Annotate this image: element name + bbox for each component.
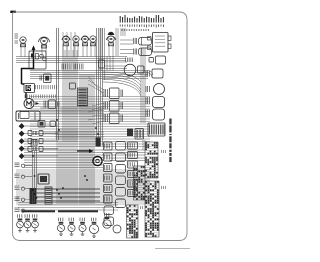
harness connector bar: [78, 88, 88, 106]
instrument lamp 3: [81, 36, 89, 46]
rear brake switch connector: [15, 208, 33, 212]
front left turn signal lamp: [20, 37, 26, 47]
wire colour code key column 1: [120, 15, 163, 23]
bullet connectors column: [19, 123, 25, 159]
alternator heavy leads: [36, 189, 100, 201]
tail harness bus: [18, 203, 118, 211]
main harness bundle C: [80, 74, 94, 204]
tachometer: [124, 58, 144, 76]
handlebar switch combs: [105, 144, 110, 202]
table row labels: [141, 150, 166, 209]
harness junction connector 1: [104, 88, 123, 99]
starter solenoid: [44, 100, 59, 109]
ignition coil 1: [134, 38, 152, 46]
switch housing stack: [116, 142, 126, 208]
wire colour code key abbreviations row: [122, 29, 150, 31]
small relay box b: [50, 121, 56, 127]
front right turn signal lamp: [107, 36, 116, 46]
switch table: handlebar right: [145, 181, 159, 237]
starter motor M: [24, 99, 39, 109]
console to coil wires: [104, 56, 127, 71]
battery: [16, 111, 40, 121]
inline connector pair 2: [28, 139, 58, 144]
headlamp: [39, 37, 50, 48]
turn signal relay: [146, 97, 165, 108]
tail stop lamp: [89, 218, 98, 238]
fuse box: [29, 51, 46, 69]
main positive lead: [22, 47, 34, 84]
CDI unit: [38, 174, 49, 184]
ignition switch block: [148, 33, 172, 53]
instrument lamp 4: [90, 36, 96, 46]
ignition feed arrow: [77, 149, 94, 153]
console bus wires: [30, 71, 148, 79]
battery leads: [40, 108, 104, 113]
main connector bar lower: [45, 187, 52, 204]
junction fan wires: [88, 76, 104, 124]
switch housing stack lower: [104, 206, 114, 226]
vertical caption: Wiring diagram - Honda CB650 US and UK models: [169, 119, 171, 163]
pulse generator connector: [15, 197, 33, 201]
right riser curve: [103, 72, 141, 96]
starter button connector: [146, 69, 163, 78]
rear left turn signal: [17, 214, 24, 232]
right riser bundle: [141, 48, 145, 150]
console bus bend: [148, 71, 153, 78]
regulator output comb: [36, 85, 57, 89]
side stand switch connector: [15, 174, 33, 178]
speedometer bulb 2: [68, 218, 75, 236]
inline connector pair 3: [28, 147, 58, 152]
rear bulb extra: [113, 225, 121, 233]
legend riser wires: [100, 28, 125, 80]
brake warning lamp: [24, 214, 31, 232]
page number 198: [10, 11, 16, 13]
small relay box c: [31, 140, 37, 147]
dimmer relay box: [99, 60, 105, 68]
instrument lamp 2: [73, 36, 79, 46]
inline connector pair 1: [28, 131, 58, 136]
switch table: bottom centre: [127, 205, 139, 238]
speedometer bulb 1: [57, 218, 64, 236]
main harness bundle E: [57, 128, 77, 204]
middle harness run 3: [24, 132, 150, 147]
rear right turn signal: [103, 213, 111, 228]
main harness bundle A: [57, 28, 59, 140]
starter relay: [146, 109, 165, 120]
horn: [146, 84, 165, 95]
indicator lamp cap: [108, 32, 114, 35]
middle harness run 1: [30, 97, 150, 115]
starter relay switch: [40, 74, 51, 83]
middle harness run 2: [30, 117, 150, 137]
rectifier block: [148, 123, 165, 136]
junction box left: [20, 112, 29, 119]
alternator junction blob: [30, 188, 37, 204]
connector block mid: [135, 129, 144, 140]
alternator lead bundle: [33, 150, 37, 204]
licence lamp: [32, 214, 39, 232]
tail bus dark segment: [22, 210, 98, 212]
fuse block mid: [127, 129, 133, 137]
harness junction connector 3: [104, 113, 123, 124]
oil pressure switch connector: [15, 163, 33, 167]
ignition switch block rows: [155, 36, 165, 46]
junction box small: [70, 83, 76, 89]
coil feed wires: [120, 40, 133, 54]
headlamp connector comb: [62, 64, 83, 70]
speedometer bulb 3: [79, 218, 86, 236]
junction dots: [32, 119, 99, 199]
harness junction connector 2: [104, 101, 123, 112]
front fork earth tags: [15, 34, 19, 43]
bullet connector wires: [24, 126, 58, 156]
regulator lead comb: [25, 95, 56, 99]
ignition coil 2: [134, 48, 152, 56]
alternator connector: [15, 186, 33, 190]
switch table: ignition switch: [145, 142, 158, 178]
instrument lamp 1: [62, 36, 70, 46]
main harness bundle D: [97, 28, 103, 146]
starter motor cable: [25, 93, 27, 99]
switch table: dimmer switch: [134, 166, 146, 200]
wire colour code key column 2: [120, 25, 163, 28]
lamp drop wires: [21, 44, 113, 57]
middle harness run 4: [24, 150, 145, 168]
positive lead arrowhead: [32, 45, 36, 50]
handlebar switch connector stack: [104, 142, 113, 203]
caption under border: [155, 248, 190, 250]
voltage regulator R: [24, 84, 35, 93]
front brake switch: [149, 56, 166, 64]
diagram border frame: [13, 12, 188, 241]
connector stack mid-left: [128, 142, 138, 197]
ignition switch: [93, 156, 102, 165]
headlamp bus wires: [16, 57, 126, 63]
small relay box a: [38, 121, 45, 128]
main harness bundle B: [63, 32, 77, 142]
harness connector bar 2: [96, 138, 101, 147]
lower harness run: [16, 170, 150, 204]
